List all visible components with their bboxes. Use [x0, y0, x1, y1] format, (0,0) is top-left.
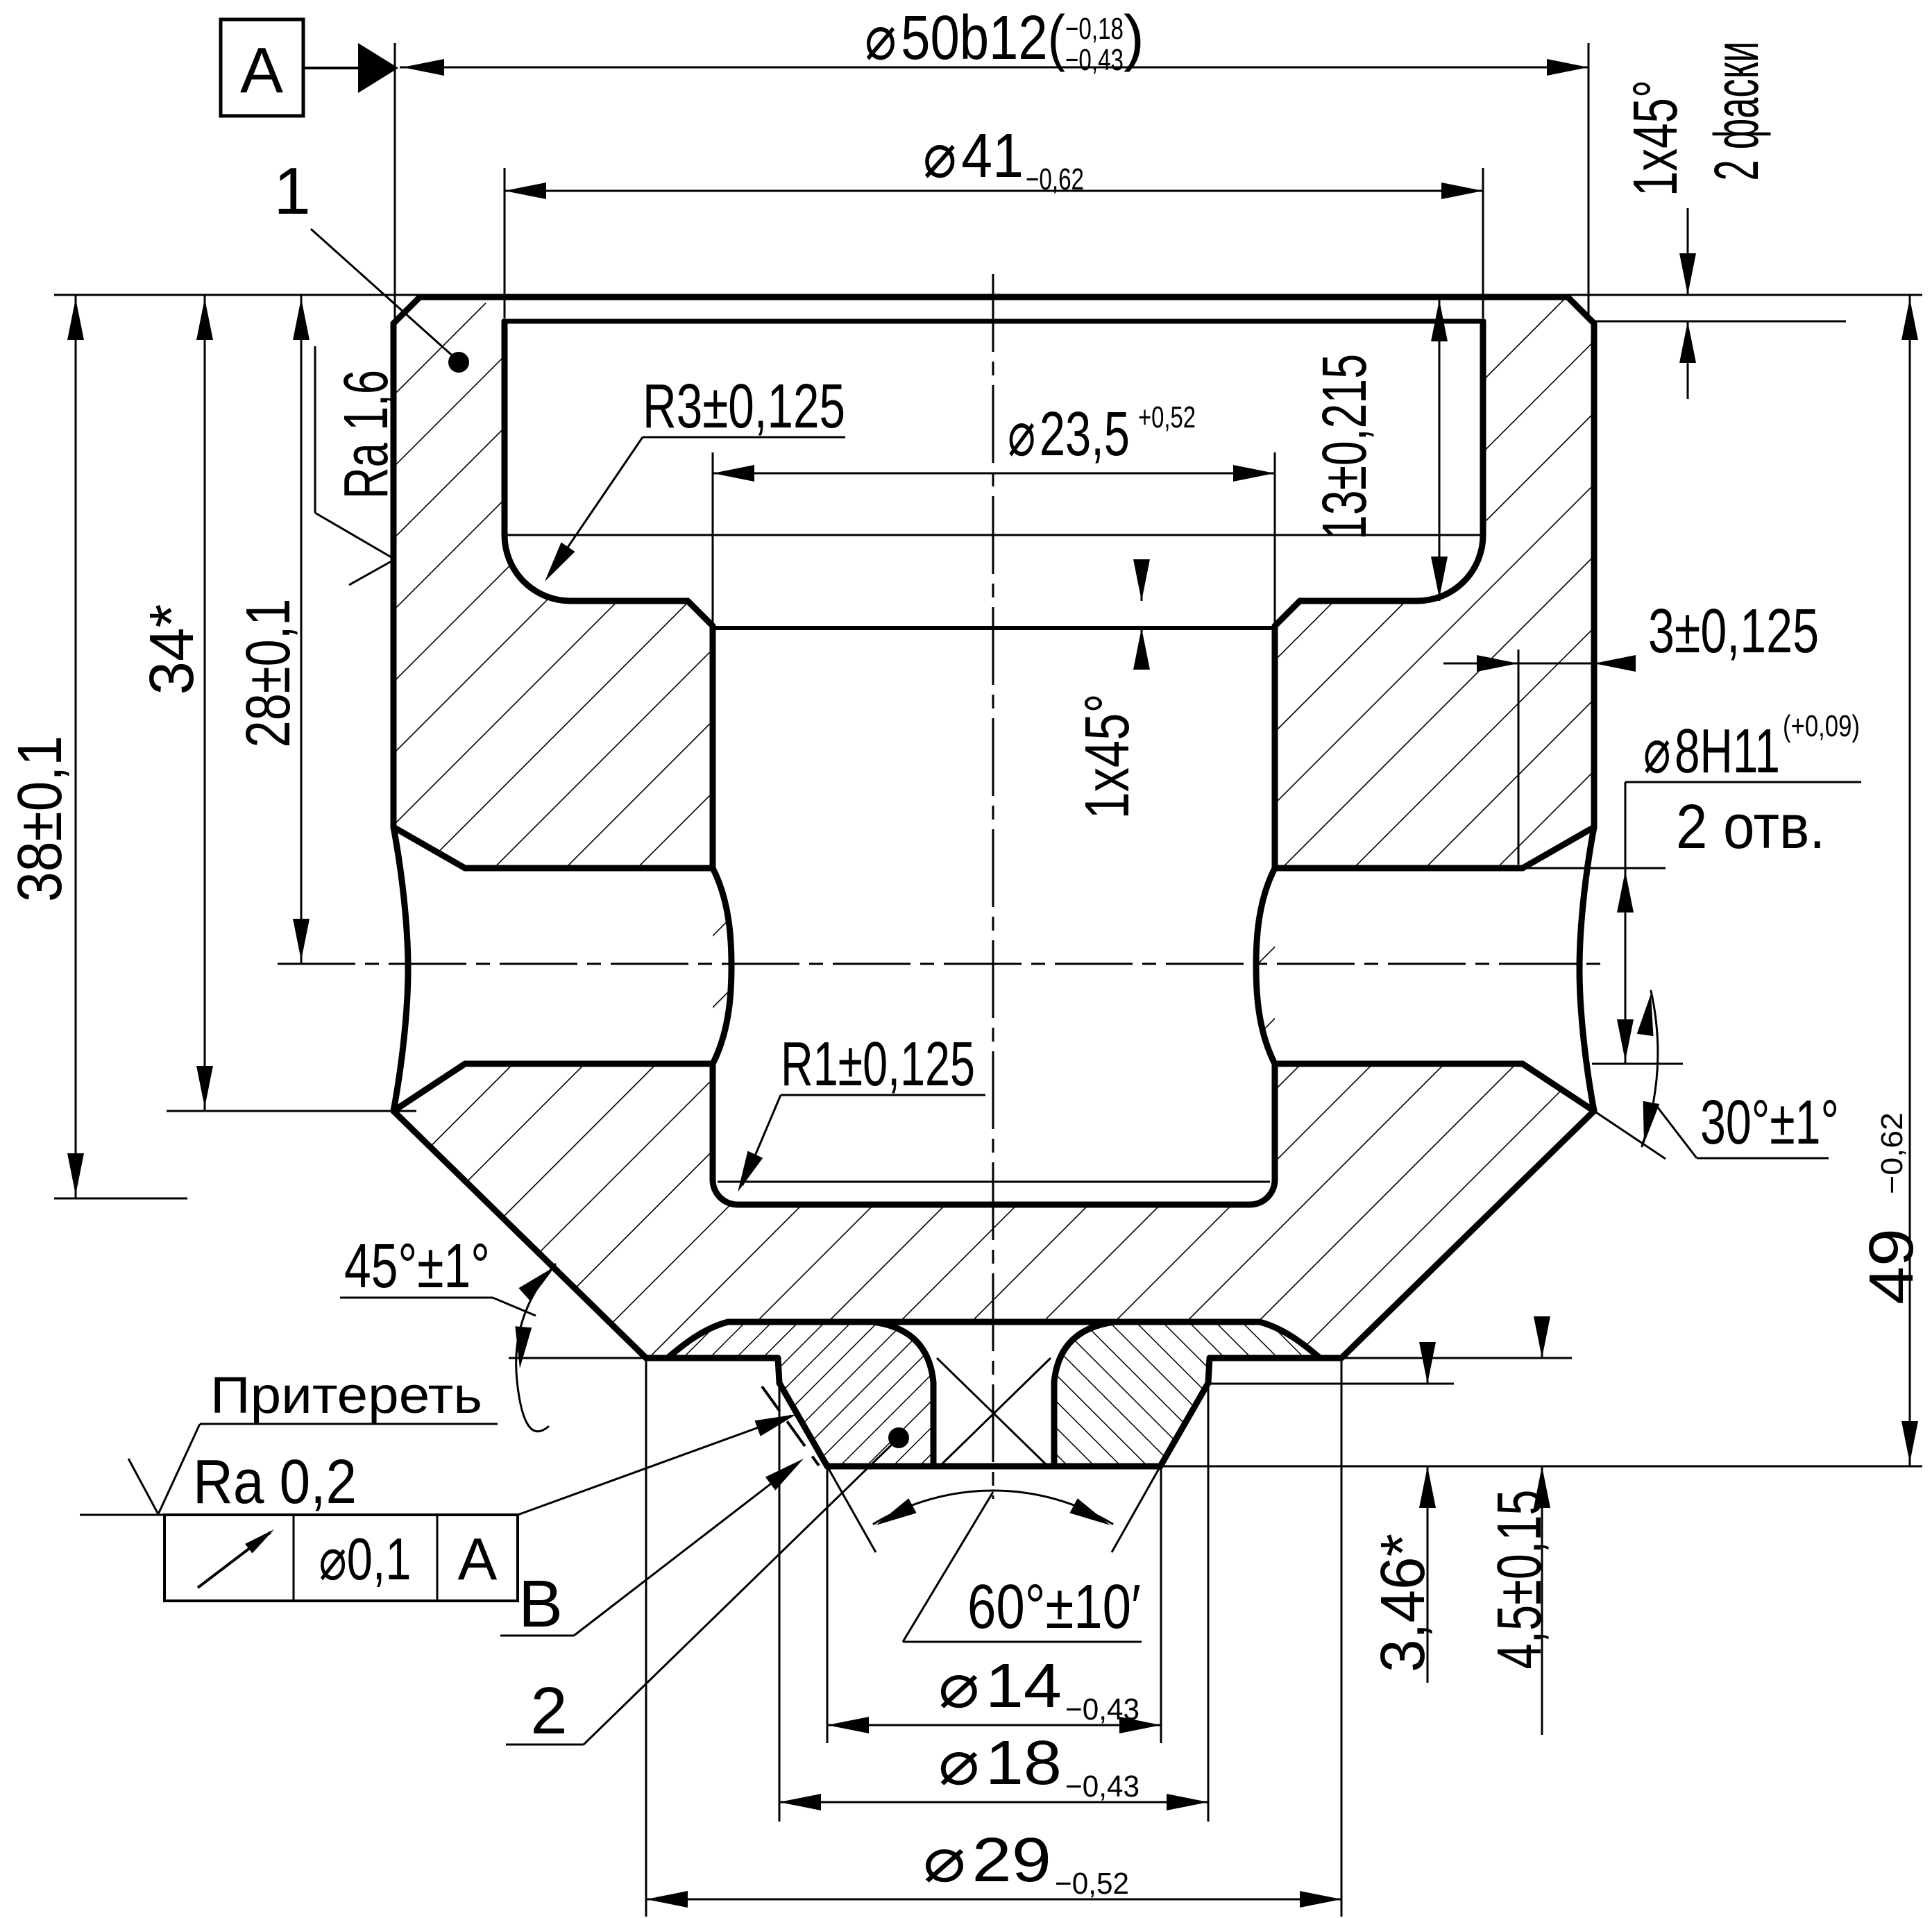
insert flat top edge [728, 1319, 1260, 1325]
recess fillet tangent edge line [507, 534, 1480, 536]
left shoulder face [646, 1355, 778, 1361]
svg-text:(+0,09): (+0,09) [1783, 709, 1860, 743]
dim dia50b12 with datum A [400, 67, 1588, 69]
svg-text:⌀ 23,5: ⌀ 23,5 [1008, 400, 1130, 469]
svg-text:3,46*: 3,46* [1368, 1534, 1438, 1672]
svg-text:Притереть: Притереть [210, 1366, 482, 1424]
recess left wall [502, 321, 508, 535]
svg-text:B: B [518, 1567, 563, 1641]
svg-text:−0,18: −0,18 [1065, 12, 1124, 46]
svg-text:A: A [240, 34, 283, 106]
body outline: top face [420, 294, 1568, 300]
svg-text:28±0,1: 28±0,1 [234, 599, 303, 748]
right hole to bore intersection curve [1256, 868, 1275, 1064]
svg-text:−0,43: −0,43 [1065, 43, 1124, 77]
recess right wall [1480, 321, 1486, 535]
insert recess left entry arc [873, 1322, 933, 1382]
dim 49 height [1160, 1466, 1922, 1468]
recess rim chamfer circle edge [505, 319, 1483, 324]
right 45deg cone edge [1341, 1111, 1594, 1358]
bore floor [738, 1202, 1250, 1208]
surface finish Ra 1,6 mark [314, 346, 316, 513]
dim 28 [300, 295, 303, 964]
bore floor fillet R1 left [713, 1180, 738, 1205]
body outline: top-left OD chamfer [393, 297, 420, 323]
dim dia23,5 [713, 473, 1275, 475]
dim 34* [167, 1110, 416, 1112]
left dia18 band edge [778, 1358, 779, 1383]
dim 1x45 2 chamfers top right [1568, 294, 1922, 296]
left 60deg seat cone edge [779, 1383, 827, 1466]
recess floor left segment [570, 598, 688, 604]
insert central recess right wall [1051, 1382, 1058, 1466]
dim dia41 [505, 190, 1483, 192]
svg-text:Ra 1,6: Ra 1,6 [332, 370, 401, 499]
insert central recess left wall [931, 1382, 937, 1466]
bottom face of seat [827, 1463, 1160, 1470]
svg-text:R1±0,125: R1±0,125 [781, 1030, 975, 1099]
dim 45deg cone angle [509, 1357, 646, 1359]
svg-text:49: 49 [1857, 1228, 1926, 1305]
bore right wall lower [1272, 1064, 1278, 1180]
svg-text:⌀ 18: ⌀ 18 [938, 1729, 1062, 1798]
svg-text:4,5±0,15: 4,5±0,15 [1485, 1490, 1554, 1670]
dim dia14 [827, 1466, 829, 1743]
tolerance frame dia0,1 A [80, 1514, 164, 1516]
left side hole bottom edge [465, 1061, 713, 1067]
svg-text:−0,62: −0,62 [1026, 162, 1084, 196]
svg-text:1x45°: 1x45° [1073, 694, 1142, 820]
svg-text:3±0,125: 3±0,125 [1648, 597, 1819, 666]
dim 3 wall thickness [1443, 663, 1627, 665]
svg-text:⌀ 29: ⌀ 29 [923, 1826, 1051, 1895]
horizontal centerline of side holes [278, 963, 1607, 965]
svg-text:30°±1°: 30°±1° [1700, 1088, 1839, 1157]
right shoulder face [1210, 1355, 1341, 1361]
svg-text:−0,52: −0,52 [1055, 1867, 1129, 1901]
body outline: right neck concave curve [1579, 827, 1594, 1111]
dim dia8H11 2 holes [1625, 781, 1861, 783]
recess floor right segment [1300, 598, 1417, 604]
bore left wall upper [710, 628, 716, 868]
left 45deg cone edge [393, 1111, 646, 1358]
right side hole top edge [1275, 865, 1523, 872]
insert dome curve left [668, 1322, 728, 1358]
crossed flat marks in insert recess [941, 1358, 1051, 1465]
svg-text:2 фаски: 2 фаски [1702, 42, 1772, 181]
right 60deg seat cone edge [1160, 1383, 1208, 1466]
svg-text:⌀0,1: ⌀0,1 [319, 1527, 412, 1593]
body outline: top-right OD chamfer [1568, 297, 1594, 323]
right hole-face upper chamfer [1523, 827, 1594, 868]
insert dome curve right [1260, 1322, 1320, 1358]
hatching: seat insert left half (part 2) [668, 1322, 933, 1466]
svg-text:Ra 0,2: Ra 0,2 [193, 1448, 357, 1517]
left hole to bore intersection curve [713, 868, 731, 1064]
svg-text:34*: 34* [137, 604, 207, 695]
svg-text:⌀ 8H11: ⌀ 8H11 [1643, 717, 1780, 786]
bore floor fillet R1 right [1250, 1180, 1275, 1205]
dim dia18 [779, 1384, 781, 1822]
vertical centerline of part [992, 274, 994, 1499]
svg-text:): ) [1124, 3, 1144, 73]
svg-text:⌀ 14: ⌀ 14 [938, 1652, 1062, 1721]
dim 60deg seat cone angle [827, 1466, 876, 1552]
svg-text:−0,43: −0,43 [1065, 1770, 1139, 1804]
svg-text:−0,43: −0,43 [1065, 1692, 1139, 1726]
left side hole top edge [465, 865, 713, 872]
dim 3,46* cone height [1208, 1383, 1454, 1385]
svg-text:60°±10′: 60°±10′ [967, 1572, 1141, 1642]
recess floor fillet R3 right [1417, 535, 1483, 601]
bore left wall lower [710, 1064, 716, 1180]
svg-text:R3±0,125: R3±0,125 [643, 372, 845, 441]
svg-text:⌀ 41: ⌀ 41 [923, 121, 1024, 191]
body outline: right OD wall [1591, 323, 1598, 827]
svg-text:+0,52: +0,52 [1138, 400, 1196, 434]
svg-text:2 отв.: 2 отв. [1676, 792, 1825, 862]
frame leader to lapped surface [518, 1416, 791, 1515]
dim 1x45 bore chamfer [1141, 559, 1143, 601]
dim 4,5 seat height [1341, 1357, 1572, 1359]
svg-text:38±0,1: 38±0,1 [6, 736, 75, 902]
recess floor fillet R3 left [505, 535, 570, 601]
bore fillet tangent edge line [718, 1181, 1270, 1183]
svg-text:A: A [458, 1527, 498, 1593]
svg-text:1x45°: 1x45° [1621, 80, 1690, 196]
svg-text:2: 2 [530, 1674, 567, 1748]
dim 30deg chamfer angle [1594, 1111, 1666, 1159]
body outline: left neck concave curve [393, 827, 408, 1111]
svg-text:−0,62: −0,62 [1875, 1112, 1909, 1194]
right dia18 band edge [1208, 1358, 1210, 1383]
bore chamfer circle edge [713, 626, 1275, 630]
svg-text:13±0,215: 13±0,215 [1310, 354, 1380, 540]
dim 13 recess depth [1439, 297, 1441, 601]
left hole-face upper chamfer [393, 827, 465, 868]
left hole-face lower chamfer [393, 1064, 465, 1111]
svg-text:⌀ 50b12(: ⌀ 50b12( [865, 3, 1065, 73]
bore rim chamfer left [688, 601, 713, 626]
insert recess right entry arc [1054, 1322, 1115, 1382]
bore rim chamfer right [1275, 601, 1300, 626]
svg-text:1: 1 [273, 154, 310, 228]
bore right wall upper [1272, 628, 1278, 868]
body outline: left OD wall [391, 323, 397, 827]
hatching: body section (part 1) [393, 297, 1594, 1358]
dim dia29 [645, 1358, 647, 1917]
right side hole bottom edge [1275, 1061, 1523, 1067]
svg-text:45°±1°: 45°±1° [344, 1232, 490, 1301]
dashed lapping zone line on 60deg cone [762, 1386, 819, 1466]
right hole-face lower chamfer [1523, 1064, 1594, 1111]
dim 38 [54, 294, 422, 296]
hatching: seat insert right half (part 2) [1054, 1322, 1320, 1466]
